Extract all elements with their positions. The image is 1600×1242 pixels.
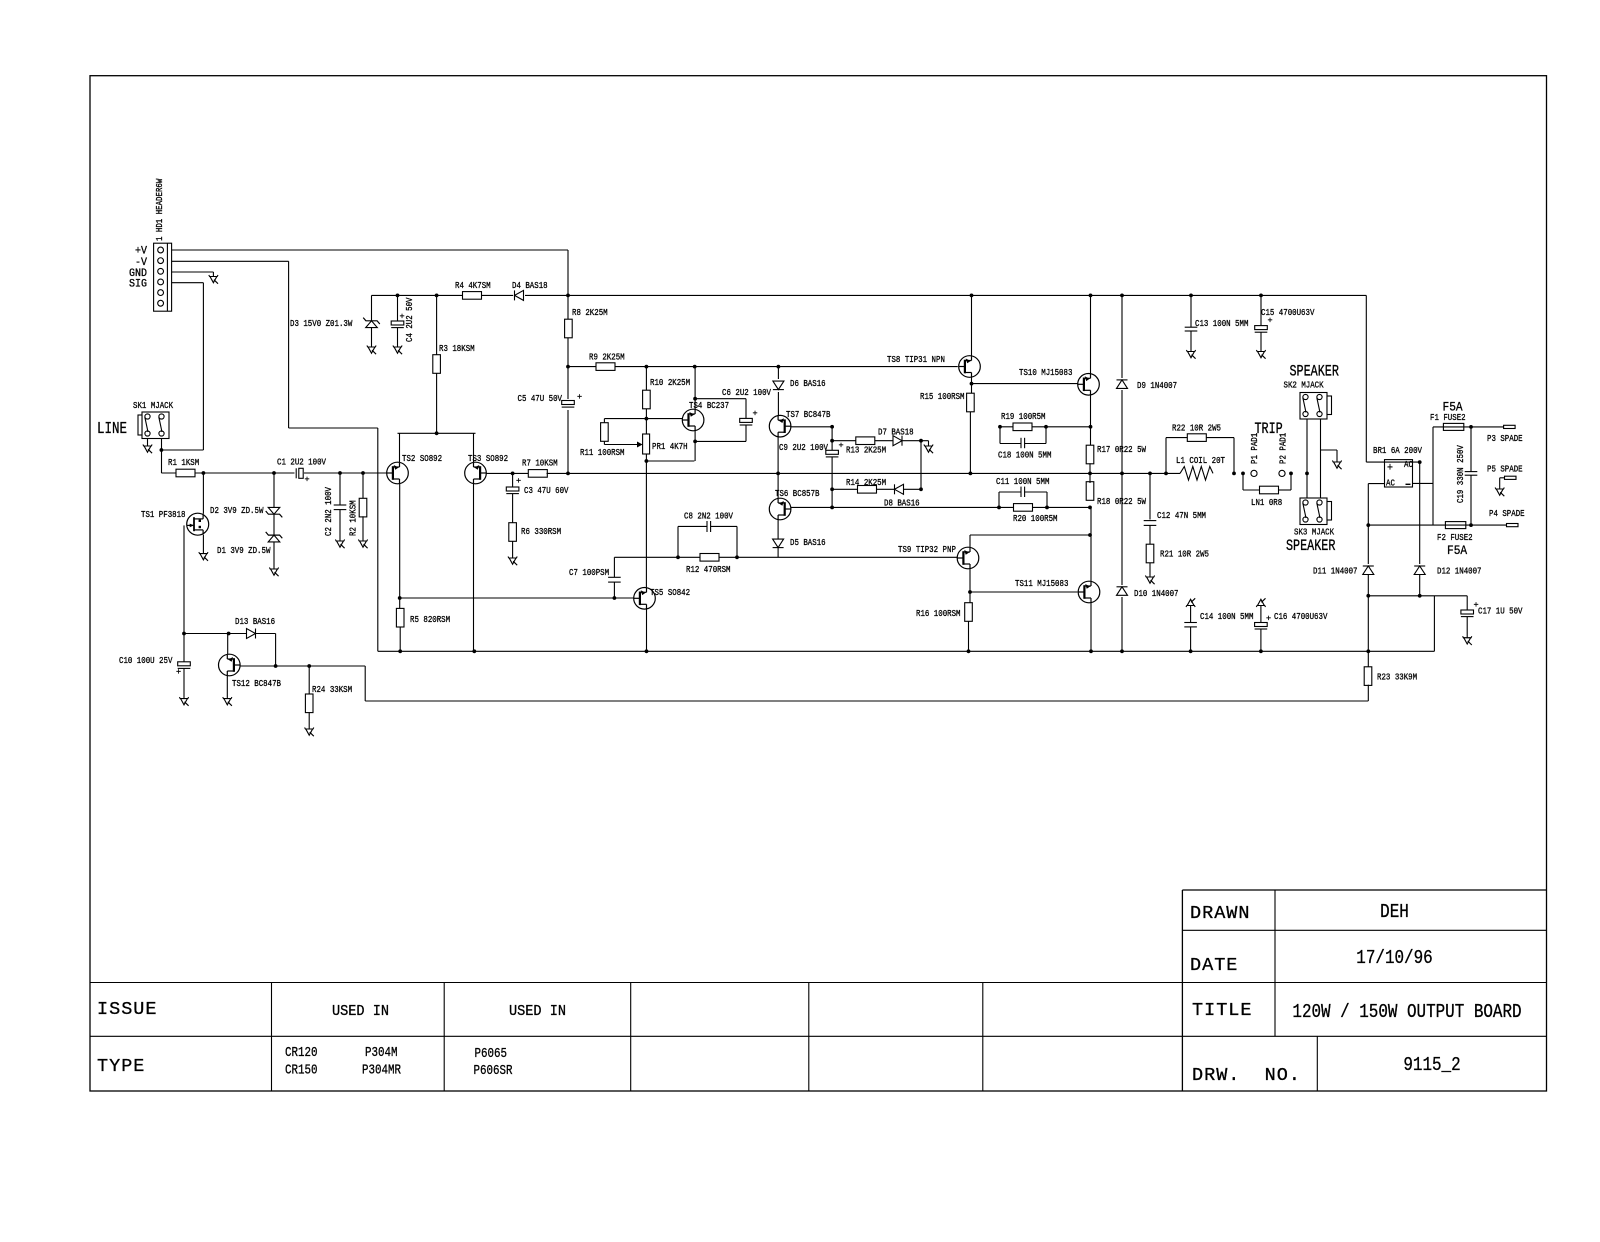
svg-text:D7 BAS18: D7 BAS18 bbox=[878, 427, 914, 438]
resistor R22 bbox=[1187, 434, 1206, 442]
capacitor C1 2U2 100V bbox=[295, 468, 305, 479]
C6 loop bottom bbox=[695, 440, 746, 442]
svg-text:AC: AC bbox=[1386, 478, 1395, 489]
svg-text:P4 SPADE: P4 SPADE bbox=[1489, 508, 1525, 519]
ground above C14 bbox=[1186, 606, 1195, 608]
diode D4 BAS18 bbox=[513, 290, 525, 302]
svg-text:SPEAKER: SPEAKER bbox=[1290, 363, 1340, 381]
svg-text:+: + bbox=[1387, 463, 1393, 475]
svg-text:C19 330N 250V: C19 330N 250V bbox=[1455, 445, 1466, 503]
F2 row bbox=[1368, 524, 1506, 526]
svg-text:TRIP: TRIP bbox=[1255, 420, 1283, 438]
svg-text:R5 820RSM: R5 820RSM bbox=[410, 614, 450, 625]
svg-text:9115_2: 9115_2 bbox=[1403, 1054, 1460, 1076]
issue/type table bbox=[90, 982, 1182, 984]
junction bbox=[1241, 472, 1245, 476]
svg-text:R19 100R5M: R19 100R5M bbox=[1001, 411, 1046, 422]
junction bbox=[1418, 594, 1422, 598]
wire R5 to bus bbox=[399, 627, 401, 651]
wire R6 to ground bbox=[512, 541, 514, 558]
wire -V elbow bbox=[289, 427, 378, 429]
svg-text:SIG: SIG bbox=[129, 279, 147, 291]
wire sleeve ground stub bbox=[1321, 449, 1338, 451]
wire R24 to ground bbox=[308, 713, 310, 729]
wire to C2 bbox=[339, 473, 341, 505]
svg-text:R16 100RSM: R16 100RSM bbox=[916, 608, 961, 619]
ground at speaker sleeve bbox=[1332, 461, 1341, 463]
svg-text:C1 2U2 100V: C1 2U2 100V bbox=[277, 457, 326, 468]
junction bbox=[361, 471, 365, 475]
junction bbox=[967, 649, 971, 653]
svg-text:+: + bbox=[1266, 614, 1271, 624]
svg-text:+: + bbox=[516, 476, 521, 486]
capacitor C2 2N2 100V bbox=[334, 504, 347, 506]
wire C15 to ground bbox=[1260, 332, 1262, 351]
resistor R6 bbox=[509, 523, 517, 542]
wire R24 link bbox=[308, 666, 310, 694]
wire TS2 emitter bbox=[399, 433, 401, 462]
junction bbox=[998, 425, 1002, 429]
svg-text:120W / 150W OUTPUT BOARD: 120W / 150W OUTPUT BOARD bbox=[1292, 1001, 1521, 1023]
C6 loop top bbox=[695, 398, 746, 400]
junction bbox=[830, 487, 834, 491]
trip gap bbox=[1258, 470, 1279, 477]
R20 row bbox=[832, 506, 1090, 508]
C18 loop right bbox=[1025, 443, 1046, 445]
resistor R12 bbox=[700, 554, 719, 562]
wire R5 link bbox=[399, 598, 401, 609]
svg-text:C7 100PSM: C7 100PSM bbox=[569, 567, 609, 578]
junction bbox=[566, 294, 570, 298]
svg-text:C15 4700U63V: C15 4700U63V bbox=[1261, 307, 1315, 318]
svg-text:SK1 MJACK: SK1 MJACK bbox=[133, 400, 173, 411]
junction bbox=[1305, 472, 1309, 476]
wire R10 to TS4 base node bbox=[645, 409, 647, 434]
svg-text:R8 2K25M: R8 2K25M bbox=[572, 307, 608, 318]
resistor R13 bbox=[856, 437, 875, 445]
wire TS1 gate bbox=[183, 525, 185, 633]
svg-text:DRAWN: DRAWN bbox=[1190, 903, 1251, 924]
ground at header GND bbox=[209, 275, 218, 277]
bottom DC line bbox=[1368, 595, 1467, 597]
junction bbox=[1189, 294, 1193, 298]
svg-text:SK2 MJACK: SK2 MJACK bbox=[1284, 380, 1324, 391]
wire to D2 bbox=[273, 473, 275, 507]
svg-text:R20 100R5M: R20 100R5M bbox=[1013, 513, 1058, 524]
junction bbox=[645, 649, 649, 653]
base row TS3 to R7 bbox=[486, 472, 529, 474]
wire C2 to ground bbox=[339, 510, 341, 541]
wire R23 to lower bus bbox=[1367, 685, 1369, 701]
wire D7/D8 junction vertical bbox=[920, 441, 922, 490]
wire TS5 emitter to bus bbox=[646, 609, 648, 652]
svg-text:TS2 SO892: TS2 SO892 bbox=[402, 453, 442, 464]
svg-text:R4 4K7SM: R4 4K7SM bbox=[455, 280, 491, 291]
svg-text:R14 2K25M: R14 2K25M bbox=[846, 477, 886, 488]
wire TS2 collector bbox=[399, 484, 401, 598]
junction bbox=[1045, 506, 1049, 510]
wire C3 stub bbox=[512, 473, 514, 487]
wire D5 to row bbox=[777, 548, 779, 558]
svg-text:D6 BAS16: D6 BAS16 bbox=[790, 378, 826, 389]
diode D13 BAS16 bbox=[247, 629, 256, 639]
junction bbox=[735, 555, 739, 559]
junction bbox=[1259, 649, 1263, 653]
svg-text:D13 BAS16: D13 BAS16 bbox=[235, 616, 275, 627]
TS6 base row bbox=[791, 506, 832, 508]
diode D12 1N4007 bbox=[1412, 564, 1428, 576]
junction bbox=[1289, 472, 1293, 476]
svg-text:1 HD1 HEADER6W: 1 HD1 HEADER6W bbox=[154, 178, 165, 241]
wire TS8 collector to rail bbox=[971, 295, 973, 356]
diode D5 BAS16 bbox=[773, 539, 784, 548]
D13 row bbox=[184, 633, 276, 635]
wire C7 to TS5 base bbox=[613, 582, 615, 598]
svg-text:R21 10R 2W5: R21 10R 2W5 bbox=[1160, 549, 1209, 560]
junction bbox=[1089, 425, 1093, 429]
ground below C15 bbox=[1256, 350, 1265, 352]
capacitor C11 100N 5MM bbox=[1020, 487, 1022, 497]
C8 loop left bbox=[677, 526, 679, 557]
svg-text:LN1 0R8: LN1 0R8 bbox=[1251, 497, 1282, 508]
wire R3 top bbox=[436, 295, 438, 355]
ground above C16 bbox=[1256, 606, 1265, 608]
R14 row bbox=[832, 488, 921, 490]
svg-text:CR150: CR150 bbox=[285, 1064, 318, 1079]
resistor R23 bbox=[1364, 667, 1372, 686]
capacitor C3 47U 60V bbox=[506, 487, 519, 491]
resistor R18 bbox=[1086, 482, 1094, 501]
wire +V pin bbox=[172, 249, 568, 251]
wire C17 to ground bbox=[1466, 617, 1468, 638]
transistor TS10 bbox=[1078, 374, 1100, 396]
junction bbox=[1148, 472, 1152, 476]
svg-text:D1 3V9 ZD.5W: D1 3V9 ZD.5W bbox=[217, 545, 271, 556]
svg-text:R11 100RSM: R11 100RSM bbox=[580, 447, 625, 458]
junction bbox=[227, 632, 231, 636]
svg-text:CR120: CR120 bbox=[285, 1046, 318, 1061]
wire D3 stub bbox=[371, 295, 373, 320]
junction bbox=[398, 596, 402, 600]
wire R16 to bus bbox=[968, 621, 970, 651]
ground at TS1 source bbox=[199, 552, 208, 554]
svg-text:D10 1N4007: D10 1N4007 bbox=[1134, 588, 1179, 599]
ground below C2 bbox=[335, 540, 344, 542]
junction bbox=[1366, 649, 1370, 653]
wire bus riser bbox=[1433, 596, 1435, 652]
wire to TS1 drain bbox=[202, 473, 204, 514]
LN1 loop bbox=[1242, 473, 1244, 490]
wire TS11 collector to bus bbox=[1090, 603, 1092, 652]
wire TS3 collector bbox=[473, 484, 475, 652]
wire TS10 emitter bbox=[1090, 395, 1092, 446]
junction bbox=[968, 590, 972, 594]
C18 loop bbox=[999, 427, 1001, 444]
svg-text:C4 2U2 50V: C4 2U2 50V bbox=[404, 297, 415, 342]
resistor LN1 0R8 bbox=[1260, 486, 1279, 494]
wire D1 to ground bbox=[273, 542, 275, 569]
junction bbox=[830, 425, 834, 429]
wire SK3 tip up bbox=[1306, 473, 1308, 498]
svg-text:TS12 BC847B: TS12 BC847B bbox=[232, 678, 281, 689]
junction bbox=[645, 417, 649, 421]
wire input row R1 to TS2 bbox=[161, 472, 387, 474]
svg-text:AC: AC bbox=[1404, 459, 1413, 470]
svg-text:R15 100RSM: R15 100RSM bbox=[920, 391, 965, 402]
svg-text:D9 1N4007: D9 1N4007 bbox=[1137, 380, 1177, 391]
zener D3 15V0 bbox=[366, 321, 378, 328]
svg-text:P5 SPADE: P5 SPADE bbox=[1487, 464, 1523, 475]
negative bus bbox=[378, 650, 1435, 652]
jack SK3 MJACK bbox=[1300, 498, 1327, 525]
svg-text:P304M: P304M bbox=[365, 1046, 398, 1061]
wire TS1 source to ground bbox=[202, 535, 204, 554]
transistor TS3 bbox=[465, 462, 487, 484]
transistor TS11 bbox=[1078, 581, 1100, 603]
wire D11 link bbox=[1367, 525, 1369, 566]
wire C13 stub bbox=[1190, 295, 1192, 327]
diode D8 BAS16 bbox=[895, 484, 904, 494]
svg-text:D11 1N4007: D11 1N4007 bbox=[1313, 566, 1358, 577]
svg-text:TS5 SO842: TS5 SO842 bbox=[650, 587, 690, 598]
wire TS12 row corner bbox=[364, 666, 366, 701]
junction bbox=[776, 472, 780, 476]
ground below TS12 bbox=[223, 697, 232, 699]
junction bbox=[1232, 472, 1236, 476]
capacitor C13 100N 5MM bbox=[1185, 326, 1198, 328]
wire TS11 emitter bbox=[1090, 507, 1092, 581]
resistor R9 bbox=[596, 363, 615, 371]
svg-text:D2 3V9 ZD.5W: D2 3V9 ZD.5W bbox=[210, 505, 264, 516]
resistor R20 bbox=[1014, 504, 1033, 512]
wire C13 to ground bbox=[1190, 331, 1192, 352]
resistor R10 bbox=[643, 390, 651, 409]
C11 loop right bbox=[1025, 491, 1047, 493]
ground below R6 bbox=[508, 557, 517, 559]
wire D11 down to bus bbox=[1367, 596, 1369, 652]
R19 row bbox=[1000, 426, 1091, 428]
svg-text:D4 BAS18: D4 BAS18 bbox=[512, 280, 548, 291]
junction bbox=[693, 365, 697, 369]
ground below D1 bbox=[269, 568, 278, 570]
wire SIG to jack bbox=[161, 449, 203, 451]
wire C14 top bbox=[1190, 606, 1192, 623]
capacitor C9 2U2 100V bbox=[826, 450, 839, 454]
wire SK2 tip down bbox=[1306, 419, 1308, 474]
wire D3 to ground bbox=[371, 328, 373, 347]
ground below D3 bbox=[367, 346, 376, 348]
capacitor C6 2U2 100V bbox=[740, 418, 753, 422]
transistor TS8 bbox=[959, 356, 981, 378]
junction bbox=[919, 487, 923, 491]
wire SK2 sleeve down bbox=[1320, 419, 1322, 499]
wire C3 to R6 bbox=[512, 494, 514, 523]
R22 loop bbox=[1165, 438, 1167, 474]
wire line to C17 bbox=[1466, 596, 1468, 610]
transistor TS7 bbox=[769, 415, 791, 437]
junction bbox=[970, 382, 974, 386]
svg-text:17/10/96: 17/10/96 bbox=[1356, 947, 1432, 969]
resistor R14 bbox=[858, 486, 877, 494]
capacitor C16 4700U63V bbox=[1255, 623, 1268, 627]
svg-text:P606SR: P606SR bbox=[474, 1064, 513, 1079]
border frame bbox=[90, 76, 1547, 1091]
junction bbox=[830, 506, 834, 510]
R9 row bbox=[568, 366, 958, 368]
svg-text:USED IN: USED IN bbox=[332, 1004, 389, 1020]
ground below C13 bbox=[1186, 350, 1195, 352]
resistor R23 link bbox=[1367, 651, 1369, 667]
top rail +V bbox=[372, 294, 1367, 296]
wire SK1 right pin down bbox=[161, 439, 163, 474]
wire C4 to ground bbox=[397, 328, 399, 347]
fuse F2 FUSE2 bbox=[1445, 522, 1465, 529]
junction bbox=[1088, 533, 1092, 537]
junction bbox=[997, 506, 1001, 510]
wire rail to R8 bbox=[567, 295, 569, 473]
svg-text:TS7 BC847B: TS7 BC847B bbox=[786, 409, 831, 420]
svg-text:DEH: DEH bbox=[1380, 901, 1409, 923]
wire -V drop 2 bbox=[377, 428, 379, 651]
svg-text:+: + bbox=[577, 392, 582, 402]
wire TS4 collector bbox=[694, 367, 696, 410]
svg-text:C13 100N 5MM: C13 100N 5MM bbox=[1195, 318, 1249, 329]
resistor R4 bbox=[463, 292, 482, 300]
wire TS9 collector bbox=[969, 535, 971, 548]
junction bbox=[1044, 425, 1048, 429]
svg-text:ISSUE: ISSUE bbox=[97, 999, 158, 1020]
TS4 base row bbox=[604, 418, 682, 420]
svg-text:USED IN: USED IN bbox=[509, 1004, 566, 1020]
ground below R24 bbox=[305, 728, 314, 730]
spade P4 SPADE bbox=[1507, 524, 1519, 527]
wire D2 to D1 bbox=[273, 514, 275, 535]
transistor TS1 (PF3818 FET) bbox=[187, 513, 209, 535]
resistor R11 bbox=[601, 423, 609, 442]
junction bbox=[970, 294, 974, 298]
svg-text:R1 1KSM: R1 1KSM bbox=[168, 457, 199, 468]
wire C9 top bbox=[831, 427, 833, 451]
wire TS8 emitter bbox=[971, 377, 973, 393]
wire C19 bottom bbox=[1470, 475, 1472, 525]
junction bbox=[338, 471, 342, 475]
wire BR1 plus row bbox=[1366, 461, 1419, 463]
capacitor C14 100N 5MM bbox=[1184, 622, 1197, 624]
inductor L1 COIL 20T bbox=[1180, 465, 1214, 481]
ground below R2 bbox=[358, 540, 367, 542]
wire BR1 minus stub bbox=[1413, 482, 1434, 484]
PR1/TS4 emitter row bbox=[646, 460, 694, 462]
junction bbox=[777, 365, 781, 369]
svg-text:R10 2K25M: R10 2K25M bbox=[650, 377, 690, 388]
wire TS2 collector to TS5 base row bbox=[400, 597, 615, 599]
junction bbox=[396, 294, 400, 298]
pad P2 PAD1 bbox=[1279, 470, 1285, 476]
svg-text:TS6 BC857B: TS6 BC857B bbox=[775, 488, 820, 499]
wire R11 to PR1 wiper bbox=[604, 444, 638, 446]
resistor R17 bbox=[1086, 445, 1094, 464]
junction bbox=[274, 664, 278, 668]
junction bbox=[1259, 294, 1263, 298]
diode D7 BAS18 bbox=[893, 436, 902, 446]
wire D10 link bbox=[1121, 473, 1123, 651]
ground at D7/D8 node bbox=[924, 445, 933, 447]
svg-text:C9 2U2 100V: C9 2U2 100V bbox=[779, 442, 828, 453]
svg-text:+: + bbox=[176, 667, 181, 677]
wire -V pin bbox=[172, 260, 289, 262]
resistor R3 bbox=[433, 355, 441, 374]
junction bbox=[566, 365, 570, 369]
svg-text:R24 33KSM: R24 33KSM bbox=[312, 684, 352, 695]
wire R3 bottom to emitter rail bbox=[436, 373, 438, 433]
fuse F1 FUSE2 bbox=[1443, 423, 1463, 430]
junction bbox=[645, 459, 649, 463]
ground at P5 bbox=[1495, 488, 1504, 490]
wire C15 stub bbox=[1260, 295, 1262, 325]
transistor TS5 bbox=[634, 588, 656, 610]
TS7 base row bbox=[791, 426, 832, 428]
svg-text:TS1 PF3818: TS1 PF3818 bbox=[141, 509, 186, 520]
junction bbox=[1120, 294, 1124, 298]
transistor TS4 bbox=[682, 409, 704, 431]
wire D13 corner down bbox=[275, 634, 277, 667]
svg-text:R9 2K25M: R9 2K25M bbox=[589, 352, 625, 363]
C8 loop right bbox=[711, 525, 737, 527]
svg-text:R6 330RSM: R6 330RSM bbox=[521, 526, 561, 537]
transistor TS2 bbox=[387, 462, 409, 484]
D5-R12 row bbox=[614, 556, 957, 558]
svg-text:+: + bbox=[753, 409, 758, 419]
junction bbox=[1088, 472, 1092, 476]
resistor R2 bbox=[359, 498, 367, 517]
transistor TS12 bbox=[219, 654, 241, 676]
mid rail bbox=[547, 472, 1181, 474]
junction bbox=[511, 472, 515, 476]
wire AC1/D11 drop bbox=[1367, 484, 1369, 525]
diode D10 1N4007 bbox=[1114, 585, 1130, 597]
zener D2 3V9 bbox=[268, 507, 280, 514]
wire AC2/D12 drop bbox=[1419, 462, 1421, 566]
svg-text:-V: -V bbox=[135, 257, 147, 269]
capacitor C10 100U 25V bbox=[178, 662, 191, 666]
connector HD1 HEADER6W bbox=[154, 243, 172, 311]
junction bbox=[613, 596, 617, 600]
wire D6 link bbox=[777, 367, 779, 415]
wire R2 to ground bbox=[362, 516, 364, 541]
junction bbox=[160, 448, 164, 452]
spade P5 SPADE bbox=[1505, 476, 1517, 479]
capacitor C18 100N 5MM bbox=[1020, 438, 1022, 448]
junction bbox=[182, 632, 186, 636]
capacitor C12 47N 5MM bbox=[1143, 520, 1157, 528]
junction bbox=[693, 397, 697, 401]
svg-text:C6 2U2 100V: C6 2U2 100V bbox=[722, 387, 771, 398]
wire TS10 collector to rail bbox=[1090, 295, 1092, 373]
junction bbox=[693, 440, 697, 444]
capacitor C19 330N 250V bbox=[1465, 471, 1478, 473]
svg-text:+V: +V bbox=[135, 246, 147, 258]
svg-text:R12 470RSM: R12 470RSM bbox=[686, 564, 731, 575]
title block box bbox=[1182, 889, 1546, 891]
C11 loop bbox=[998, 492, 1000, 507]
trimmer PR1 4K7H bbox=[643, 434, 650, 454]
wire TS4 emitter bbox=[694, 431, 696, 462]
svg-text:R2 10KSM: R2 10KSM bbox=[348, 500, 359, 536]
ground below C17 bbox=[1463, 636, 1472, 638]
resistor R1 bbox=[176, 469, 195, 477]
wire R11 top stub bbox=[603, 419, 605, 423]
zener D1 3V9 bbox=[268, 535, 280, 542]
